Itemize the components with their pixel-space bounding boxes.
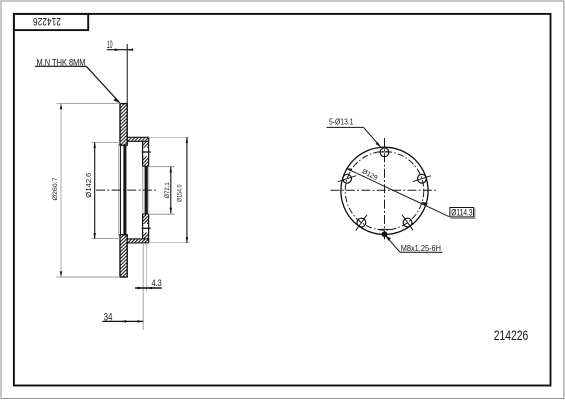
svg-text:M8x1.25-6H: M8x1.25-6H [401, 244, 441, 253]
svg-text:214226: 214226 [494, 328, 529, 343]
svg-text:4.3: 4.3 [152, 278, 162, 289]
svg-text:Ø72.1: Ø72.1 [164, 182, 171, 198]
svg-text:34: 34 [104, 312, 113, 324]
svg-text:Ø114.3: Ø114.3 [451, 208, 472, 218]
svg-text:Ø260.7: Ø260.7 [52, 177, 59, 200]
svg-text:Ø154.0: Ø154.0 [177, 184, 184, 202]
svg-text:5-Ø13.1: 5-Ø13.1 [329, 117, 354, 127]
svg-text:214226: 214226 [33, 15, 61, 27]
svg-text:Ø142.6: Ø142.6 [84, 173, 93, 198]
